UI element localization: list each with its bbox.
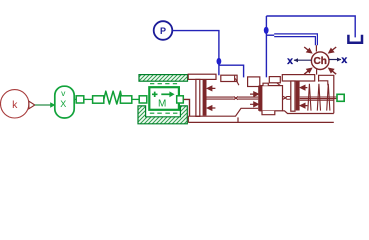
valve seat D — [269, 77, 280, 83]
rod right section — [286, 97, 291, 100]
flow arrow left bottom — [207, 106, 215, 110]
svg-text:x: x — [341, 54, 347, 66]
wire k to converter — [35, 104, 51, 106]
wire stub from dot 2 — [266, 34, 274, 36]
bottom channel left cap — [187, 116, 189, 122]
wire vertical pilot 3 — [265, 16, 267, 77]
center piston left wall (filled) — [258, 86, 262, 111]
wire branch to second port — [219, 65, 244, 77]
center piston box — [260, 86, 283, 111]
rod to center piston — [238, 97, 258, 99]
spring (zigzag) — [104, 91, 122, 104]
transducer k (circle) — [1, 90, 29, 118]
signal arrowhead (open triangle) — [29, 101, 35, 109]
plus sign — [152, 92, 158, 97]
flow arrow center top — [250, 92, 258, 96]
junction dot 1 — [217, 58, 222, 65]
chamber indicator Ch (circle) — [311, 52, 329, 70]
spring end plate left — [93, 96, 104, 103]
rod left section — [207, 97, 234, 99]
valve output connector (green square) — [337, 94, 344, 101]
link wire — [84, 98, 92, 100]
fixed mount top (hatched) — [139, 75, 188, 82]
return spring (vertical zigzag) — [308, 84, 330, 111]
svg-text:X: X — [60, 99, 66, 109]
linkage motor to valve — [184, 99, 190, 116]
tank symbol — [348, 35, 362, 43]
wire P to valve — [172, 31, 219, 76]
motor box M — [149, 87, 179, 110]
Ch arrow top-right — [329, 47, 336, 53]
bottom channel middle edge — [283, 111, 334, 114]
svg-text:x: x — [287, 55, 293, 67]
svg-text:M: M — [158, 98, 166, 109]
valve seat C — [248, 77, 260, 87]
test line right — [329, 59, 341, 61]
svg-text:Ch: Ch — [314, 56, 327, 67]
Ch arrow top-left — [304, 47, 311, 53]
rod joint right (pointed) — [283, 96, 286, 99]
pressure sensor P (circle) — [154, 21, 173, 40]
right piston plate — [291, 81, 295, 111]
flow arrow right bottom — [300, 103, 307, 107]
test line left — [294, 59, 311, 61]
wire top to tank — [266, 16, 355, 37]
port notch bottom — [262, 111, 275, 115]
svg-text:P: P — [160, 26, 166, 36]
Ch arrow bottom-right — [329, 69, 336, 75]
svg-text:k: k — [12, 99, 18, 111]
left spool bar (filled) — [203, 79, 207, 115]
right port channel outer — [319, 75, 334, 113]
bottom channel top edge — [188, 108, 258, 116]
sliding dashes top — [150, 83, 177, 85]
arrow symbol — [161, 93, 170, 95]
bottom channel bottom edge — [188, 121, 333, 123]
stub wire stadium output — [74, 98, 76, 100]
flow arrow center bottom — [250, 102, 258, 106]
green arrowhead into converter — [50, 102, 55, 108]
port notch top — [263, 83, 268, 85]
stub below Ch circle — [316, 69, 318, 74]
svg-text:v: v — [61, 88, 66, 98]
double wire to Ch inner — [274, 37, 315, 46]
right spool bar (filled) — [296, 81, 300, 111]
flow arrow right top — [300, 85, 307, 89]
stub into Ch circle — [315, 45, 317, 51]
junction dot 2 — [264, 27, 269, 34]
mech connector square motor right — [177, 96, 184, 103]
rod joint (bowtie) — [234, 97, 238, 100]
mech connector square 1 — [76, 96, 84, 103]
right port channel inner — [319, 81, 328, 86]
fixed mount bottom (hatched U) — [138, 106, 187, 124]
test arrow right — [337, 58, 341, 62]
valve top plate right — [282, 75, 314, 81]
bottom channel step tick — [237, 117, 239, 122]
spring end plate right — [120, 96, 131, 103]
test arrow left — [294, 58, 298, 62]
flow arrow left top — [207, 86, 215, 90]
link wire — [132, 98, 139, 100]
valve top plate A — [188, 74, 216, 79]
converter block v/x (stadium) — [55, 86, 74, 118]
left piston plate — [196, 79, 200, 116]
valve nozzle plate B — [221, 75, 237, 81]
mech connector square 2 — [139, 96, 147, 103]
sliding dashes bottom — [150, 112, 178, 114]
double wire to Ch outer — [274, 34, 317, 45]
Ch arrow bottom-left — [304, 69, 311, 75]
